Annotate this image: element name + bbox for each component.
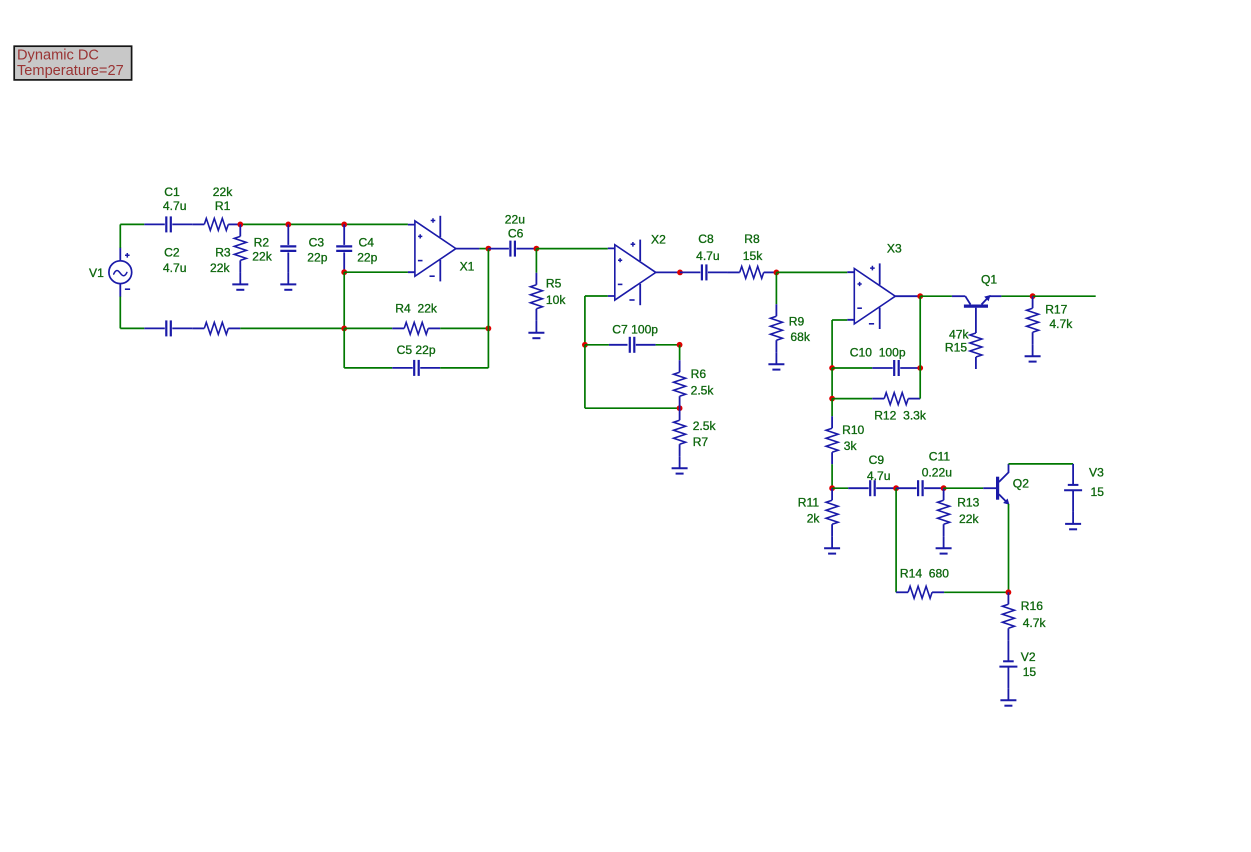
resistor R3 [192,246,240,335]
resistor R15 [945,321,982,369]
wire V1 plus to top rail [119,224,121,248]
title box Dynamic DC / Temperature=27 [14,46,131,80]
ground below V3 [1065,512,1081,529]
svg-text:2.5k: 2.5k [691,383,715,397]
resistor R4 [392,302,440,335]
svg-text:V2: V2 [1021,650,1036,664]
wire R10 to junction [831,464,833,488]
svg-text:X1: X1 [460,260,475,274]
resistor R12 [872,393,927,423]
node C11/R13 junction [941,485,947,491]
svg-text:C6: C6 [508,227,524,241]
wire R1 to C3 node [240,223,288,225]
svg-text:Q2: Q2 [1013,476,1029,490]
ground below V2 [1000,688,1016,705]
svg-text:R9: R9 [789,315,805,329]
transistor Q1 [952,272,1002,306]
svg-text:R2: R2 [254,235,270,249]
svg-text:R5: R5 [546,277,562,291]
wire Q1 base lead [975,308,977,321]
svg-text:15: 15 [1023,665,1037,679]
wire X2 output lead [656,271,680,273]
node R12 left junction [829,396,835,402]
capacitor C8 [680,232,728,280]
wire C5 up to R4 node [487,328,489,368]
wire down to C10 left [831,320,833,368]
capacitor C9 [848,453,896,496]
svg-text:22u: 22u [505,212,525,226]
wire junction to R4 [344,327,392,329]
capacitor C2 [144,246,192,337]
wire R7 rail [585,407,680,409]
node C9/C11 junction [893,485,899,491]
wire C3 node to C4 node [288,223,344,225]
svg-text:R11: R11 [798,496,820,510]
node R14/R16 junction [1006,589,1012,595]
node C10 right junction [917,365,923,371]
op-amp X1 [408,216,475,282]
wire C7 right lead [656,344,680,346]
svg-text:V3: V3 [1089,466,1104,480]
resistor R13 [938,488,980,536]
wire C4 bottom to X1 minus input [344,271,408,273]
svg-text:C11: C11 [929,449,951,463]
svg-text:C8: C8 [698,232,714,246]
resistor R1 [192,185,240,230]
svg-text:R13: R13 [957,496,979,510]
svg-text:C7 100p: C7 100p [612,323,658,337]
wire down to R7 rail [584,345,586,408]
wire down to R10 [831,399,833,417]
svg-text:V1: V1 [89,266,104,280]
wire down to C5 rail [343,328,345,368]
wire R3 to bottom junction [240,327,344,329]
svg-text:15k: 15k [743,249,763,263]
svg-text:22k: 22k [213,185,233,199]
node X2 output junction [677,270,683,276]
ground below R2 [232,272,248,289]
svg-text:4.7k: 4.7k [1023,616,1047,630]
wire down to C7 left [584,296,586,345]
node junction C4 bottom [341,269,347,275]
node C10 left junction [829,365,835,371]
wire C10 left lead rail [832,367,872,369]
svg-text:3k: 3k [844,439,858,453]
resistor R7 [674,408,717,456]
wire X1 output lead [456,248,480,250]
svg-text:C2: C2 [164,246,180,260]
capacitor C6 [488,212,536,256]
op-amp X2 [608,232,666,305]
wire X3 output down to C10 [919,296,921,368]
capacitor C3 [280,224,327,272]
node R10/R11/C9 junction [829,485,835,491]
svg-text:22k: 22k [210,261,230,275]
svg-text:R14 680: R14 680 [900,567,949,581]
wire X3 output to Q1 [920,295,952,297]
wire down to R5 [535,249,537,273]
svg-text:C9: C9 [869,453,885,467]
resistor R6 [674,360,715,408]
svg-text:22p: 22p [307,251,327,265]
op-amp X3 [847,241,902,329]
svg-text:R7: R7 [693,435,709,449]
svg-text:R10: R10 [842,423,864,437]
svg-text:R12 3.3k: R12 3.3k [874,409,927,423]
wire V1 minus to bottom rail [119,297,121,329]
ground below R17 [1025,344,1041,361]
svg-text:R3: R3 [215,246,231,260]
wire to Q2 base [944,487,984,489]
resistor R11 [798,488,838,536]
svg-text:22p: 22p [357,251,377,265]
node junction R1/R2 [237,222,243,228]
ground below R11 [824,536,840,553]
svg-text:C4: C4 [359,235,375,249]
resistor R8 [728,232,776,278]
wire C9/C11 junction down to R14 [895,488,897,592]
wire R12 right up to C10 right [919,368,921,399]
wire R4 to output vertical [440,327,488,329]
svg-text:4.7u: 4.7u [163,199,187,213]
resistor R16 [1002,592,1046,640]
wire C7 left lead [585,344,609,346]
capacitor C7 [609,323,658,353]
svg-text:10k: 10k [546,293,566,307]
source V1 [89,248,132,297]
node junction C3 top [285,222,291,228]
wire C5 rail left [344,367,392,369]
wire X3 minus input left [832,319,847,321]
resistor R17 [1027,296,1074,344]
wire X3 output lead [895,295,920,297]
resistor R2 [234,224,272,272]
svg-text:R6: R6 [691,367,707,381]
resistor R9 [770,304,810,352]
wire Q1 to R17 junction [1001,295,1032,297]
wire to R12 [832,398,872,400]
wire Q2 emitter down [1008,504,1010,592]
ground below C3 [280,272,296,289]
wire R8 to X3 plus input [776,271,847,273]
wire R14 to R16 junction [944,591,1008,593]
transistor Q2 [983,464,1029,505]
resistor R10 [826,416,864,464]
svg-text:4.7k: 4.7k [1049,317,1073,331]
svg-text:X2: X2 [651,232,666,246]
battery V3 [1064,464,1104,512]
capacitor C1 [144,185,192,232]
svg-text:C5 22p: C5 22p [397,343,436,357]
node C7 right junction [677,342,683,348]
node junction C4 top [341,222,347,228]
node R6/R7 junction [677,405,683,411]
ground below R5 [528,321,544,338]
svg-text:C10 100p: C10 100p [850,346,906,360]
battery V2 [999,640,1036,688]
wire C10 left down to R12 [831,368,833,399]
svg-text:68k: 68k [790,330,810,344]
svg-text:R8: R8 [744,232,760,246]
wire C4 node to X1 plus input [344,223,408,225]
svg-text:X3: X3 [887,241,902,255]
wire junction to C9 [832,487,848,489]
ground below R9 [768,352,784,369]
svg-text:C3: C3 [309,235,325,249]
ground below R7 [672,456,688,473]
capacitor C4 [336,224,377,272]
ground below R13 [936,536,952,553]
wire X1 output to node [479,248,488,250]
node Q1/R17 junction [1030,293,1036,299]
wire down to R9 [775,272,777,304]
wire X1 output down to R4 node [487,249,489,329]
wire X2 minus input left [585,295,608,297]
svg-text:22k: 22k [959,512,979,526]
svg-text:R4 22k: R4 22k [395,302,438,316]
capacitor C5 [392,343,440,376]
svg-text:4.7u: 4.7u [867,469,891,483]
svg-text:R17: R17 [1045,303,1067,317]
node junction bottom rail [341,326,347,332]
svg-text:15: 15 [1091,485,1105,499]
svg-text:22k: 22k [252,250,272,264]
capacitor C11 [896,449,952,496]
wire C4 bottom down to bottom rail [343,272,345,328]
resistor R14 [896,567,949,599]
svg-text:0.22u: 0.22u [922,465,952,479]
node C7 left junction [582,342,588,348]
svg-text:Temperature=27: Temperature=27 [17,63,124,79]
node X1 output junction [486,246,492,252]
svg-text:4.7u: 4.7u [163,261,187,275]
wire bottom rail left segment [120,327,144,329]
node X3 output junction [917,293,923,299]
svg-text:Dynamic DC: Dynamic DC [17,48,99,64]
svg-text:2k: 2k [807,512,821,526]
svg-text:C1: C1 [164,185,180,199]
svg-text:R15: R15 [945,340,967,354]
svg-text:R16: R16 [1021,599,1043,613]
wire to R6 [679,345,681,360]
node junction R4 right [486,326,492,332]
wire C5 rail right [440,367,488,369]
wire C6 to X2 plus input [536,248,607,250]
node junction R8/R9 [774,270,780,276]
capacitor C10 [850,346,920,376]
wire top rail left segment [120,223,144,225]
svg-text:2.5k: 2.5k [693,419,717,433]
svg-text:R1: R1 [215,199,231,213]
svg-text:Q1: Q1 [981,272,997,286]
node junction C6/R5 [534,246,540,252]
wire output right [1033,295,1096,297]
svg-text:4.7u: 4.7u [696,249,720,263]
resistor R5 [530,273,566,321]
wire Q2 collector to V3 [1009,463,1074,465]
